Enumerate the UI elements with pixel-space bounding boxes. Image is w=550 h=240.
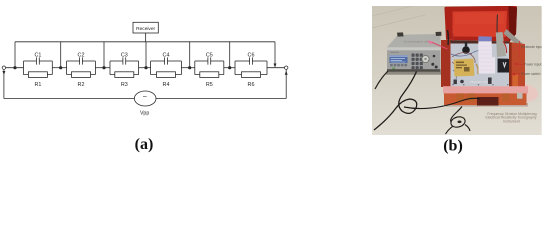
- photo: lid inner highlight: [455, 13, 504, 25]
- photo: case right wall inner edge: [509, 43, 512, 95]
- svg-text:Communication cable: Communication cable: [404, 40, 431, 44]
- svg-text:C3: C3: [121, 52, 128, 58]
- node J5 (junction dot + riser): [228, 42, 231, 69]
- photo: case front silver latch: [517, 93, 523, 99]
- photo: generator green power button: [392, 68, 395, 70]
- photo: generator left cable: [375, 71, 388, 89]
- wire: cell 3 to cell 4: [139, 67, 151, 69]
- wire: cell 4 to cell 5: [181, 67, 194, 69]
- photo: hinge dark strip: [448, 40, 510, 45]
- photo: case pink rim: [443, 86, 528, 93]
- photo: leader arrow power input: [514, 63, 523, 66]
- photo: generator soft keys: [390, 64, 407, 66]
- photo: dark component row at panel bottom: [454, 78, 492, 85]
- photo: leader line electrode input: [512, 47, 520, 50]
- photo: lid inner bright panel: [453, 11, 508, 37]
- node J1 (junction dot + riser): [59, 42, 62, 69]
- photo: generator screen: [390, 55, 408, 63]
- photo: pink arrow annotation: [427, 41, 447, 49]
- svg-text:Power input: Power input: [524, 63, 541, 67]
- photo: generator brand dashes: [390, 52, 399, 53]
- photo: yellow module details: [456, 62, 470, 72]
- svg-text:R4: R4: [163, 82, 170, 88]
- wire: bottom rail right: [156, 98, 286, 100]
- photo: antenna cable rising through lid: [496, 15, 498, 39]
- svg-text:Power switch: Power switch: [521, 72, 541, 76]
- capacitor C6: [235, 52, 267, 64]
- photo: shadow under case: [446, 103, 528, 107]
- photo: white display screen purple top band: [478, 36, 492, 41]
- wire: left terminal down to bottom rail (down arrow): [2, 70, 5, 99]
- capacitor C1: [24, 52, 53, 64]
- photo: floor tile seam 2: [372, 15, 425, 28]
- svg-text:R2: R2: [78, 82, 85, 88]
- photo: lid support rod grey: [504, 29, 523, 47]
- photo: screw dots on panel bottom strip: [452, 84, 508, 86]
- photo: red case lid (open): [444, 6, 517, 42]
- terminal T2 (right output port): [285, 66, 288, 69]
- terminal T1 (left input port): [2, 66, 5, 69]
- capacitor C4: [151, 52, 182, 64]
- photo: floor tile seam 1: [372, 6, 412, 16]
- cell 4 side wires: [151, 61, 182, 75]
- ac source Vpp: [134, 91, 156, 116]
- photo: case left wall: [441, 40, 451, 87]
- wire: top bus: [15, 41, 275, 43]
- svg-text:(b): (b): [443, 137, 463, 154]
- photo: cable running right under case: [404, 98, 480, 108]
- resistor R1: [24, 72, 53, 88]
- capacitor C3: [110, 52, 139, 64]
- wire: bus right drop with down arrow: [274, 42, 277, 68]
- wire: left terminal to cell 1: [6, 67, 24, 69]
- svg-text:Electrode input: Electrode input: [521, 45, 543, 49]
- svg-text:Vpp: Vpp: [140, 110, 149, 116]
- photo: red cable from lid to case: [503, 41, 507, 53]
- photo: thin wires on panel: [452, 53, 475, 76]
- svg-text:(a): (a): [135, 136, 154, 153]
- photo: shadow under generator: [386, 72, 441, 75]
- cell 6 side wires: [235, 61, 267, 75]
- svg-text:~: ~: [143, 92, 148, 101]
- photo: case interior panel: [451, 44, 510, 87]
- photo: generator knob center: [424, 58, 426, 60]
- wire: receiver lead down to bus: [145, 33, 147, 42]
- wire: bottom rail left: [4, 98, 135, 100]
- node J3 (junction dot + riser): [144, 42, 147, 69]
- photo: generator knob: [422, 55, 429, 62]
- wire: bottom rail up to right terminal (up arrow): [285, 70, 288, 99]
- photo: lid right dark band: [509, 6, 518, 42]
- wire: cell 5 to cell 6: [224, 67, 235, 69]
- resistor R3: [110, 72, 139, 88]
- svg-text:C1: C1: [34, 52, 41, 58]
- photo: generator screen text lines: [391, 59, 406, 62]
- photo: cable from case bottom split: [446, 107, 471, 135]
- photo: white display screen body: [478, 41, 495, 73]
- photo: case orange front: [444, 93, 527, 105]
- photo: generator top corner caps: [397, 32, 442, 37]
- wire: cell 2 to cell 3: [95, 67, 110, 69]
- photo: case right wall: [509, 42, 525, 95]
- wire: cell 6 to right terminal: [267, 67, 285, 69]
- photo: generator body: [387, 47, 441, 71]
- cell 5 side wires: [195, 61, 224, 75]
- svg-text:R3: R3: [121, 82, 128, 88]
- photo: leader arrow power switch: [511, 73, 520, 76]
- svg-text:C2: C2: [78, 52, 85, 58]
- resistor R5: [195, 72, 224, 88]
- wire: cell 1 to cell 2: [52, 67, 66, 69]
- svg-text:R5: R5: [206, 82, 213, 88]
- photo: cable connector blob: [458, 121, 462, 124]
- svg-text:R1: R1: [34, 82, 41, 88]
- resistor R4: [151, 72, 182, 88]
- svg-text:Instrument: Instrument: [503, 119, 520, 123]
- photo: red vertical leader on case wall: [519, 41, 521, 57]
- photo: grey bracket right of screen: [496, 32, 506, 57]
- resistor R6: [235, 72, 267, 88]
- photo: generator BNC connectors: [431, 55, 437, 69]
- photo: tan wire bundle right of module: [476, 64, 478, 74]
- resistor R2: [67, 72, 96, 88]
- photo: pink floor shadow right of case: [512, 82, 538, 102]
- photo: floor background: [372, 6, 542, 135]
- node J4 (junction dot + riser): [188, 42, 191, 69]
- node J2 (junction dot + riser): [102, 42, 105, 69]
- photo: black module right of screen: [498, 59, 510, 73]
- photo: black round connector in case: [462, 42, 470, 54]
- photo: generator screen header: [390, 55, 408, 57]
- cell 1 side wires: [24, 61, 53, 75]
- photo: cable from generator down with loop: [374, 72, 417, 131]
- photo: case front latch tabs: [457, 93, 510, 101]
- photo: generator keypad: [412, 54, 423, 70]
- photo: red wire at hinge left: [452, 31, 453, 41]
- receiver U1 (Receiver box): [133, 22, 158, 33]
- photo: generator front bevel: [387, 47, 441, 50]
- svg-text:R6: R6: [248, 82, 255, 88]
- capacitor C5: [195, 52, 224, 64]
- photo: white V mark on black module: [503, 62, 507, 68]
- svg-text:Receiver: Receiver: [136, 26, 155, 32]
- photo: generator bottom strip: [387, 69, 441, 72]
- photo: case right wall orange highlight: [513, 74, 519, 92]
- photo: thin blue wire on panel: [451, 51, 480, 79]
- cell 3 side wires: [110, 61, 139, 75]
- photo: generator top surface: [387, 34, 441, 47]
- photo: display faint grid lines: [480, 46, 494, 70]
- photo: dark cable hanging at hinge left: [447, 30, 450, 45]
- svg-text:C4: C4: [163, 52, 170, 58]
- capacitor C2: [67, 52, 96, 64]
- photo: yellow circuit module: [454, 59, 475, 77]
- node J0 (junction dot + riser to top bus): [13, 42, 16, 69]
- svg-text:C5: C5: [206, 52, 213, 58]
- cell 2 side wires: [67, 61, 96, 75]
- svg-text:C6: C6: [248, 52, 255, 58]
- photo: case front recess handle: [477, 97, 499, 106]
